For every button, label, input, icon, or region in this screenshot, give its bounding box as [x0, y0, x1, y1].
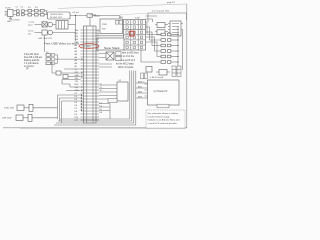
resistor R1 [28, 13, 32, 16]
capacitor C1 [16, 7, 20, 16]
crystal X1 row [4, 104, 58, 111]
pin tab below title block [157, 104, 169, 108]
svg-text:DC9V: DC9V [5, 8, 11, 10]
resistor R10 [46, 62, 58, 65]
red ellipse annotation (5V net) [79, 44, 99, 49]
module box "Nano Stack" [97, 38, 124, 50]
wire ticks [99, 64, 112, 67]
capacitor C10 [146, 67, 152, 73]
op-amp U2 [117, 80, 128, 101]
diode D10 [156, 70, 170, 76]
left vertical bus [58, 95, 62, 123]
svg-text:If the A/D input: If the A/D input [24, 53, 39, 56]
red highlight cell on JP1 [130, 31, 134, 36]
svg-text:CAP 22pF: CAP 22pF [2, 117, 12, 120]
svg-text:LM7805 REG: LM7805 REG [50, 14, 63, 16]
svg-text:modules to an Arduino Nano and: modules to an Arduino Nano and [148, 119, 181, 122]
frame right border [186, 4, 188, 128]
frame bottom border 2 [20, 128, 186, 130]
crystal Y1 [99, 52, 114, 60]
LED column wiring (nested bends) [141, 22, 161, 62]
pin labels left [75, 30, 80, 122]
junction dots on header [81, 94, 82, 110]
relay K2 [155, 30, 168, 35]
svg-text:C9 104: C9 104 [90, 15, 98, 17]
bus bends to bottom-left [54, 119, 136, 125]
svg-text:1 SK 13 rev A: 1 SK 13 rev A [150, 76, 163, 79]
notes box [146, 110, 185, 128]
wire reset net [94, 15, 100, 17]
svg-text:to LCD panel 16x2: to LCD panel 16x2 [152, 10, 170, 13]
wire long vertical [140, 47, 142, 50]
svg-text:sense: sense [28, 30, 34, 32]
wire header right stubs bottom [99, 104, 110, 120]
power jack J1 [5, 8, 14, 17]
note text block right [116, 52, 139, 69]
capacitor C3 [42, 22, 47, 27]
transistor Q2 [48, 22, 56, 27]
resistor R3 + LED D5 [161, 33, 178, 36]
svg-text:page 1/1: page 1/1 [167, 2, 176, 4]
junction dots mid pins [81, 59, 82, 60]
diode D3 [87, 14, 93, 26]
svg-text:wire to A/D lines: wire to A/D lines [122, 52, 139, 55]
svg-text:+5V out: +5V out [72, 11, 80, 14]
capacitor C2 [21, 7, 25, 16]
wire mid rail [94, 35, 124, 37]
svg-text:XTAL 16M: XTAL 16M [4, 107, 14, 110]
diode D1 [28, 7, 32, 12]
pin tab U2 bottom [108, 99, 117, 103]
wire pulldowns to header [58, 55, 81, 63]
wire stub down [44, 35, 46, 52]
ground (under J1) [7, 17, 12, 24]
connector CN2 [168, 21, 183, 36]
wire row A [35, 24, 43, 26]
resistor R2b [41, 13, 45, 16]
wire rail to frame [182, 30, 184, 70]
wire U1 output rail [70, 16, 120, 20]
switch S1 box [100, 19, 123, 34]
resistor R6 + LED D8 [161, 50, 178, 53]
svg-text:Nano Stack: Nano Stack [104, 46, 120, 50]
svg-text:AN(0..3) inputs: AN(0..3) inputs [118, 66, 134, 69]
svg-text:input: input [28, 24, 33, 27]
wire C2 to D1 [24, 11, 28, 15]
wire row B [35, 32, 43, 34]
bus wires from jumper rows [146, 16, 158, 22]
wire VCC down to header [75, 16, 77, 42]
voltage regulator U1 [48, 12, 71, 19]
svg-text:to add 4 infrared range: to add 4 infrared range [148, 115, 171, 118]
resistor R8 [46, 54, 58, 57]
diode D2 [35, 9, 39, 12]
transistor Q3 [48, 30, 76, 35]
resistor R2 [35, 13, 39, 16]
svg-text:IN GND OUT: IN GND OUT [50, 17, 63, 19]
svg-text:SW: SW [102, 29, 105, 31]
svg-text:+5 reg: +5 reg [28, 20, 35, 23]
title block (c) box [145, 76, 180, 105]
resistor R7b + LED D9b [161, 61, 178, 64]
header pins [81, 30, 100, 120]
transistor Q1 cluster [52, 62, 81, 79]
capacitor C6 [116, 57, 122, 61]
svg-text:5V GND: 5V GND [83, 46, 92, 48]
connector CN3 [172, 66, 181, 77]
bus wires right of U2 (vertical) [130, 71, 136, 126]
capacitor C8 [141, 73, 148, 79]
frame bottom border [3, 127, 187, 129]
svg-text:(c) Nano IO: (c) Nano IO [154, 89, 168, 93]
wire J1 to C1 [13, 11, 17, 15]
svg-text:1 K pull downs: 1 K pull downs [24, 63, 40, 65]
svg-text:floating add the: floating add the [24, 59, 40, 62]
capacitor C7 row [2, 114, 58, 121]
svg-text:for the MCU data: for the MCU data [116, 62, 134, 65]
resistor R5 + LED D7 [161, 44, 178, 47]
wire header to U2 [99, 85, 117, 99]
svg-text:to ground: to ground [24, 65, 34, 68]
resistor R9 [46, 58, 58, 61]
relay K1 [155, 23, 168, 28]
svg-text:this schematic shows a solutio: this schematic shows a solution [148, 112, 179, 115]
node VCC junction [72, 11, 80, 16]
wire bus to header pins [58, 95, 81, 101]
frame top border (skewed scan line) [58, 4, 187, 8]
pin labels right [100, 84, 103, 114]
wire faint continuation [120, 13, 148, 15]
node rail right [177, 26, 178, 70]
note text block left [24, 53, 43, 70]
svg-text:PWR: PWR [102, 24, 107, 26]
resistor R4 + LED D6 [161, 39, 178, 42]
svg-text:AN0 in: AN0 in [138, 80, 145, 83]
jumper block JP1 (grid) [124, 20, 146, 51]
wire to regulator [32, 11, 48, 15]
svg-text:lines R6 to R9 are: lines R6 to R9 are [24, 56, 43, 59]
diode D3a [41, 9, 45, 12]
svg-text:CAP 10uF 25V: CAP 10uF 25V [38, 37, 52, 40]
header strip J2 (Nano socket) [84, 26, 97, 123]
wire top-right net [148, 13, 187, 22]
resistor R7 + LED D9 [161, 55, 178, 58]
svg-text:a serial LCD with text decoder: a serial LCD with text decoder [148, 122, 177, 125]
capacitor C5 [116, 52, 122, 56]
svg-text:9-12VDC: 9-12VDC [12, 20, 21, 22]
capacitor C4 [42, 30, 47, 35]
wire misc to header [62, 69, 81, 91]
wire U2 outputs to right [136, 80, 148, 98]
inductor L1 box [56, 21, 76, 30]
